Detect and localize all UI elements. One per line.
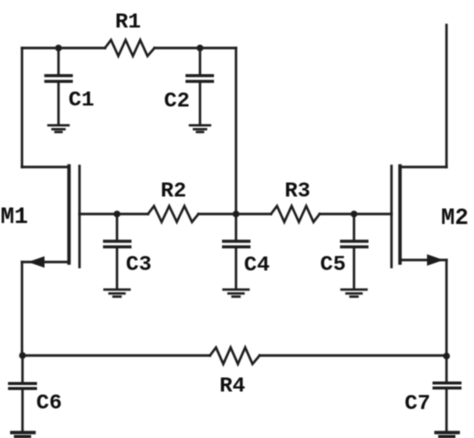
node bottom-left dot	[19, 352, 26, 359]
node B dot (R1 right / C2)	[197, 45, 204, 52]
capacitor C7	[434, 356, 460, 430]
capacitor C4	[224, 214, 250, 289]
svg-text:R4: R4	[219, 375, 245, 399]
svg-text:R2: R2	[161, 180, 187, 204]
node bottom-right dot	[443, 353, 450, 360]
svg-text:C4: C4	[244, 253, 270, 277]
svg-text:M1: M1	[0, 204, 28, 230]
wire R2 to node C4	[198, 213, 236, 215]
capacitor C6	[10, 356, 36, 431]
svg-text:M2: M2	[441, 205, 469, 231]
resistor R1	[105, 40, 155, 56]
wire top rail left segment	[22, 47, 105, 49]
svg-text:C6: C6	[36, 392, 62, 416]
svg-text:C2: C2	[164, 90, 190, 114]
transistor M2 source arrow	[427, 254, 444, 266]
wire node C4 to R3	[236, 213, 271, 215]
ground (C2)	[190, 125, 210, 132]
transistor M1 drain wire	[22, 166, 69, 168]
transistor M2 channel	[398, 166, 401, 263]
wire middle vertical	[235, 48, 237, 214]
node C4 dot	[233, 211, 240, 218]
capacitor C3	[105, 214, 131, 289]
wire left vertical bottom	[21, 262, 23, 356]
node C5 dot	[351, 211, 358, 218]
wire left vertical top	[21, 48, 23, 167]
node C3 dot	[114, 211, 121, 218]
wire bottom rail left segment	[22, 354, 210, 356]
wire top rail right segment	[155, 47, 237, 49]
transistor M2 drain wire	[400, 166, 447, 168]
svg-text:C1: C1	[68, 89, 94, 113]
svg-text:C5: C5	[320, 253, 346, 277]
node A dot (R1 left / C1)	[55, 45, 62, 52]
ground (C3)	[105, 290, 130, 297]
ground (C7)	[436, 433, 458, 437]
wire R3 to M2 gate	[320, 213, 392, 215]
svg-text:C7: C7	[405, 392, 431, 416]
transistor M1 source wire	[22, 261, 69, 263]
transistor M1 gate wire	[80, 213, 149, 215]
svg-text:C3: C3	[126, 253, 152, 277]
resistor R3	[271, 206, 320, 222]
wire bottom rail right segment	[260, 354, 447, 356]
wire right vertical bottom	[445, 260, 447, 356]
svg-text:R1: R1	[115, 11, 141, 35]
resistor R2	[148, 206, 198, 222]
transistor M2 source wire	[400, 259, 447, 261]
ground (C1)	[49, 125, 69, 132]
transistor M2 gate plate	[390, 166, 392, 267]
capacitor C1	[46, 48, 72, 124]
ground (C6)	[12, 433, 34, 437]
ground (C4)	[224, 290, 249, 297]
svg-text:R3: R3	[285, 180, 311, 204]
capacitor C5	[342, 214, 368, 289]
resistor R4	[210, 348, 260, 365]
ground (C5)	[342, 290, 367, 297]
transistor M1 gate plate	[78, 166, 80, 267]
transistor M1 source arrow	[28, 256, 45, 268]
capacitor C2	[187, 48, 213, 124]
transistor M1 channel	[67, 166, 70, 263]
wire right vertical top	[445, 25, 447, 167]
